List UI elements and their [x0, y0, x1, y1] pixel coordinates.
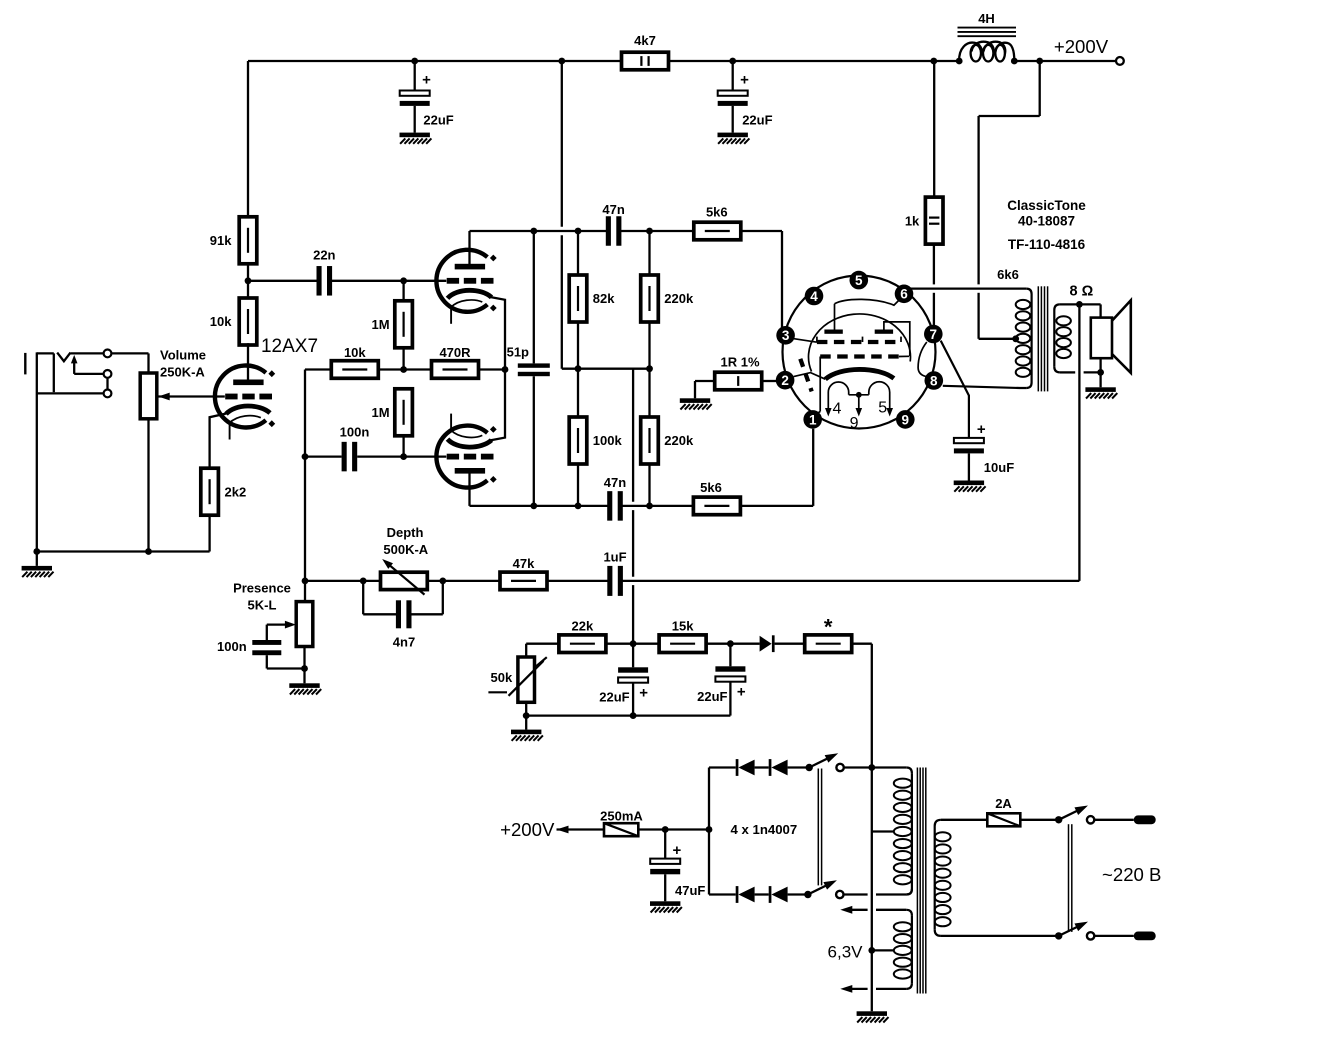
svg-text:12AX7: 12AX7 — [261, 336, 318, 357]
svg-text:+: + — [737, 684, 746, 701]
svg-text:10k: 10k — [210, 314, 232, 329]
svg-text:82k: 82k — [593, 291, 615, 306]
svg-text:9: 9 — [850, 415, 859, 432]
svg-text:1: 1 — [809, 412, 817, 427]
svg-text:100n: 100n — [340, 424, 370, 439]
svg-text:220k: 220k — [664, 433, 694, 448]
svg-text:22n: 22n — [313, 248, 335, 263]
svg-text:6: 6 — [900, 287, 908, 302]
svg-text:+: + — [673, 842, 682, 859]
svg-text:2k2: 2k2 — [225, 484, 247, 499]
svg-text:5k6: 5k6 — [706, 205, 728, 220]
svg-text:91k: 91k — [210, 233, 232, 248]
svg-text:Volume: Volume — [160, 348, 206, 363]
svg-text:8: 8 — [930, 373, 938, 388]
svg-text:100k: 100k — [593, 433, 623, 448]
svg-text:~220 B: ~220 B — [1102, 864, 1161, 885]
svg-text:Depth: Depth — [387, 525, 424, 540]
svg-text:1k: 1k — [905, 213, 920, 228]
svg-text:15k: 15k — [672, 619, 694, 634]
svg-text:10k: 10k — [344, 345, 366, 360]
svg-text:40-18087: 40-18087 — [1018, 214, 1075, 229]
svg-text:6,3V: 6,3V — [828, 942, 864, 961]
svg-text:22uF: 22uF — [599, 689, 629, 704]
svg-text:22uF: 22uF — [742, 113, 772, 128]
svg-text:470R: 470R — [439, 345, 471, 360]
svg-text:2A: 2A — [995, 796, 1012, 811]
svg-text:10uF: 10uF — [984, 460, 1014, 475]
svg-text:51p: 51p — [507, 345, 529, 360]
svg-text:47n: 47n — [602, 202, 624, 217]
svg-text:47uF: 47uF — [675, 883, 705, 898]
svg-text:TF-110-4816: TF-110-4816 — [1008, 237, 1086, 252]
svg-text:250mA: 250mA — [600, 809, 643, 824]
svg-text:+200V: +200V — [1054, 36, 1109, 57]
svg-text:5K-L: 5K-L — [248, 598, 277, 613]
svg-text:50k: 50k — [490, 670, 512, 685]
svg-text:3: 3 — [782, 328, 790, 343]
svg-text:ClassicTone: ClassicTone — [1007, 198, 1086, 213]
svg-text:7: 7 — [930, 327, 938, 342]
svg-text:47k: 47k — [513, 556, 535, 571]
svg-text:+: + — [740, 72, 749, 89]
svg-text:5k6: 5k6 — [700, 480, 722, 495]
svg-text:500K-A: 500K-A — [383, 542, 428, 557]
svg-text:5: 5 — [878, 399, 887, 416]
svg-text:2: 2 — [781, 373, 789, 388]
svg-text:*: * — [824, 615, 833, 640]
svg-text:1R 1%: 1R 1% — [720, 355, 759, 370]
svg-text:+: + — [977, 421, 986, 438]
svg-text:1M: 1M — [372, 405, 390, 420]
svg-text:1M: 1M — [372, 317, 390, 332]
svg-text:4 x 1n4007: 4 x 1n4007 — [731, 822, 798, 837]
svg-text:+200V: +200V — [500, 819, 555, 840]
svg-text:4: 4 — [833, 400, 842, 417]
svg-text:5: 5 — [855, 273, 863, 288]
svg-text:9: 9 — [902, 412, 910, 427]
svg-text:+: + — [639, 685, 648, 702]
svg-text:6k6: 6k6 — [997, 267, 1019, 282]
svg-text:4H: 4H — [978, 11, 995, 26]
svg-text:22uF: 22uF — [697, 689, 727, 704]
svg-text:4k7: 4k7 — [634, 33, 656, 48]
svg-text:+: + — [422, 72, 431, 89]
svg-text:4: 4 — [810, 289, 818, 304]
svg-text:4n7: 4n7 — [393, 634, 415, 649]
svg-text:100n: 100n — [217, 639, 247, 654]
svg-text:8 Ω: 8 Ω — [1070, 284, 1094, 300]
svg-text:1uF: 1uF — [603, 550, 626, 565]
svg-text:22uF: 22uF — [423, 113, 453, 128]
svg-text:47n: 47n — [604, 475, 626, 490]
svg-text:250K-A: 250K-A — [160, 364, 205, 379]
svg-text:Presence: Presence — [233, 581, 291, 596]
svg-text:220k: 220k — [664, 291, 694, 306]
svg-text:22k: 22k — [572, 619, 594, 634]
